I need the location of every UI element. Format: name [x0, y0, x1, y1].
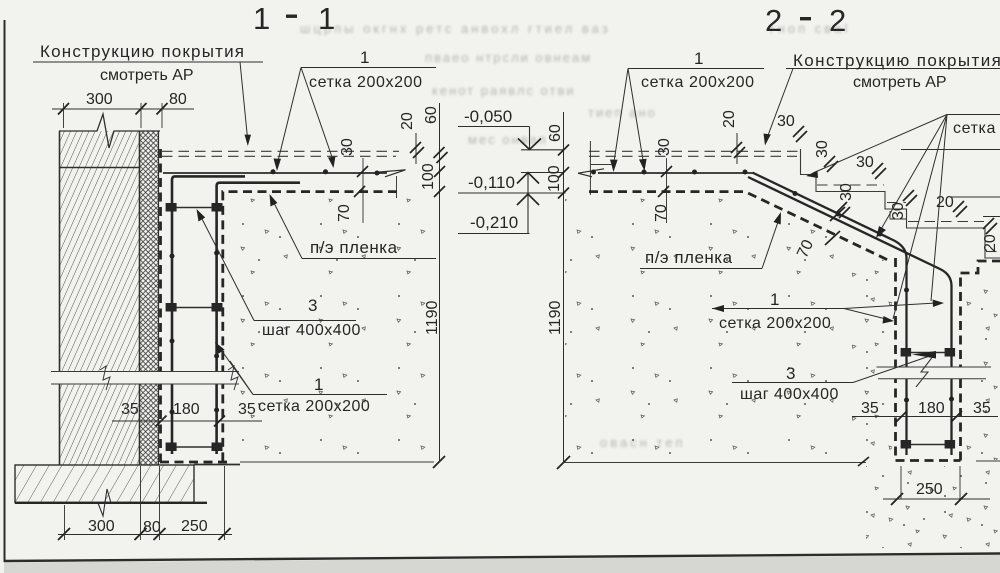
svg-text:20: 20 — [721, 110, 738, 128]
wire dots on diagonal — [793, 191, 798, 196]
svg-text:180: 180 — [918, 400, 945, 417]
svg-text:сетка 200x200: сетка 200x200 — [258, 398, 370, 415]
svg-text:30: 30 — [339, 138, 356, 156]
svg-text:1: 1 — [314, 375, 323, 394]
leader from label to roof line — [240, 62, 248, 138]
svg-text:250: 250 — [181, 518, 208, 535]
svg-text:пваео нтрсли овнеам: пваео нтрсли овнеам — [425, 50, 592, 65]
svg-text:30: 30 — [814, 140, 831, 158]
top screed dashed lines (2-2) — [589, 150, 800, 152]
svg-text:мес онвап: мес онвап — [468, 132, 548, 147]
svg-text:60: 60 — [547, 124, 564, 142]
svg-text:35: 35 — [861, 400, 879, 417]
stirrup 1 — [166, 203, 223, 212]
wall level line at slab top — [60, 167, 140, 169]
svg-text:30: 30 — [838, 183, 855, 201]
stepped dashed coating lines — [817, 184, 884, 186]
svg-text:сетка: сетка — [953, 120, 996, 137]
bottom line right of beam — [194, 464, 240, 466]
svg-text:35: 35 — [238, 401, 256, 418]
wire dots on bars — [170, 254, 175, 259]
beam bottom thick dashed — [160, 461, 227, 464]
slab top line with pointed end — [163, 172, 387, 174]
svg-text:смотреть АР: смотреть АР — [100, 67, 194, 84]
svg-text:смотреть АР: смотреть АР — [853, 74, 947, 91]
mesh diagonal bar 1 (into beam left bar) — [753, 173, 907, 455]
fan label setka (top right) — [947, 114, 1000, 116]
svg-text:гноп свal: гноп свal — [770, 21, 850, 36]
top screed dashed lines — [162, 150, 399, 152]
svg-text:1: 1 — [253, 1, 270, 36]
stirrup 3 — [166, 443, 223, 452]
svg-text:сетка 200x200: сетка 200x200 — [719, 315, 831, 332]
wall top edge with break — [59, 114, 160, 148]
svg-text:30: 30 — [890, 202, 907, 220]
beam edge thick dashed (formwork) — [159, 149, 162, 462]
beam break band 2-2 — [877, 368, 990, 379]
svg-text:тиеп ано: тиеп ано — [588, 105, 657, 120]
bottom frame border — [4, 554, 1000, 562]
svg-text:шцрпы окгнх ретс анвохл гтиел: шцрпы окгнх ретс анвохл гтиел ваз — [300, 21, 611, 36]
wall edges — [59, 131, 61, 465]
coating step outline (2-2) — [801, 149, 1000, 258]
bleed-through ghost text — [300, 21, 850, 450]
svg-text:Конструкцию покрытия: Конструкцию покрытия — [40, 42, 245, 61]
svg-text:100: 100 — [546, 165, 563, 192]
svg-text:250: 250 — [916, 481, 943, 498]
svg-text:300: 300 — [86, 91, 113, 108]
mesh wire dots (2-2) — [591, 170, 596, 175]
left frame border — [4, 20, 6, 562]
svg-text:70: 70 — [653, 204, 670, 222]
svg-text:п/э пленка: п/э пленка — [645, 248, 733, 267]
svg-text:30: 30 — [856, 154, 874, 171]
bottom ground line 2-2 — [564, 462, 867, 464]
svg-text:-0,050: -0,050 — [464, 107, 512, 126]
foundation hatched block — [15, 465, 194, 503]
stirrup 2-2 lower — [901, 440, 956, 449]
svg-text:1: 1 — [694, 49, 703, 68]
svg-text:80: 80 — [169, 91, 187, 108]
svg-text:20: 20 — [399, 112, 416, 130]
mesh wire dots on slab top — [271, 169, 276, 174]
insulation strip crosshatched — [140, 131, 159, 465]
svg-text:1: 1 — [770, 290, 779, 309]
svg-text:-0,110: -0,110 — [468, 173, 515, 192]
slab top line with pointed end (2-2) — [598, 172, 753, 174]
svg-text:-0,210: -0,210 — [470, 213, 518, 232]
svg-text:35: 35 — [973, 400, 991, 417]
svg-text:180: 180 — [173, 401, 200, 418]
svg-text:70: 70 — [336, 204, 353, 222]
brick wall hatched body — [60, 131, 140, 465]
polyethylene film thick dashed (2-2) — [589, 192, 889, 261]
svg-text:35: 35 — [121, 401, 139, 418]
svg-text:овасн теп: овасн теп — [600, 435, 686, 450]
rebar bar A (L-shape) — [172, 176, 245, 454]
mesh diagonal bar 2 (into beam right bar) — [748, 177, 952, 455]
stirrup 2 — [166, 303, 223, 312]
svg-text:сетка 200x200: сетка 200x200 — [309, 74, 423, 91]
svg-text:1: 1 — [360, 48, 369, 67]
concrete speckled fill 1-1 — [228, 196, 433, 458]
bottom scan strip — [4, 555, 1000, 573]
svg-text:30: 30 — [777, 113, 795, 130]
concrete speckled fill 2-2 (right of beam and below) — [963, 276, 1000, 458]
svg-text:30: 30 — [656, 138, 673, 156]
svg-text:3: 3 — [786, 364, 795, 383]
svg-text:60: 60 — [423, 106, 440, 124]
wall break band — [51, 372, 239, 385]
svg-text:1190: 1190 — [424, 300, 441, 335]
polyethylene film thick dashed (corner) — [223, 192, 397, 461]
stirrup 2-2 upper — [901, 348, 956, 357]
slab end extension line (2-2) — [589, 141, 591, 195]
svg-text:20: 20 — [982, 234, 999, 252]
svg-text:300: 300 — [88, 518, 115, 535]
foundation bottom thick edge with break mark — [15, 502, 207, 504]
concrete speckled fill 2-2 (left of beam) — [565, 198, 892, 458]
svg-text:шаг 400x400: шаг 400x400 — [262, 322, 361, 339]
svg-text:сетка 200x200: сетка 200x200 — [641, 74, 755, 91]
svg-text:кенот раявлс отви: кенот раявлс отви — [432, 83, 576, 98]
svg-text:п/э пленка: п/э пленка — [310, 238, 398, 257]
wire dots on beam bars 2-2 — [904, 398, 909, 403]
rebar bar B (L-shape) — [217, 183, 300, 454]
svg-text:1190: 1190 — [547, 300, 564, 335]
denser speckles near beam — [852, 270, 1000, 546]
svg-text:Конструкцию покрытия: Конструкцию покрытия — [793, 51, 1000, 70]
svg-text:шаг 400x400: шаг 400x400 — [740, 386, 839, 403]
svg-text:3: 3 — [308, 296, 317, 315]
